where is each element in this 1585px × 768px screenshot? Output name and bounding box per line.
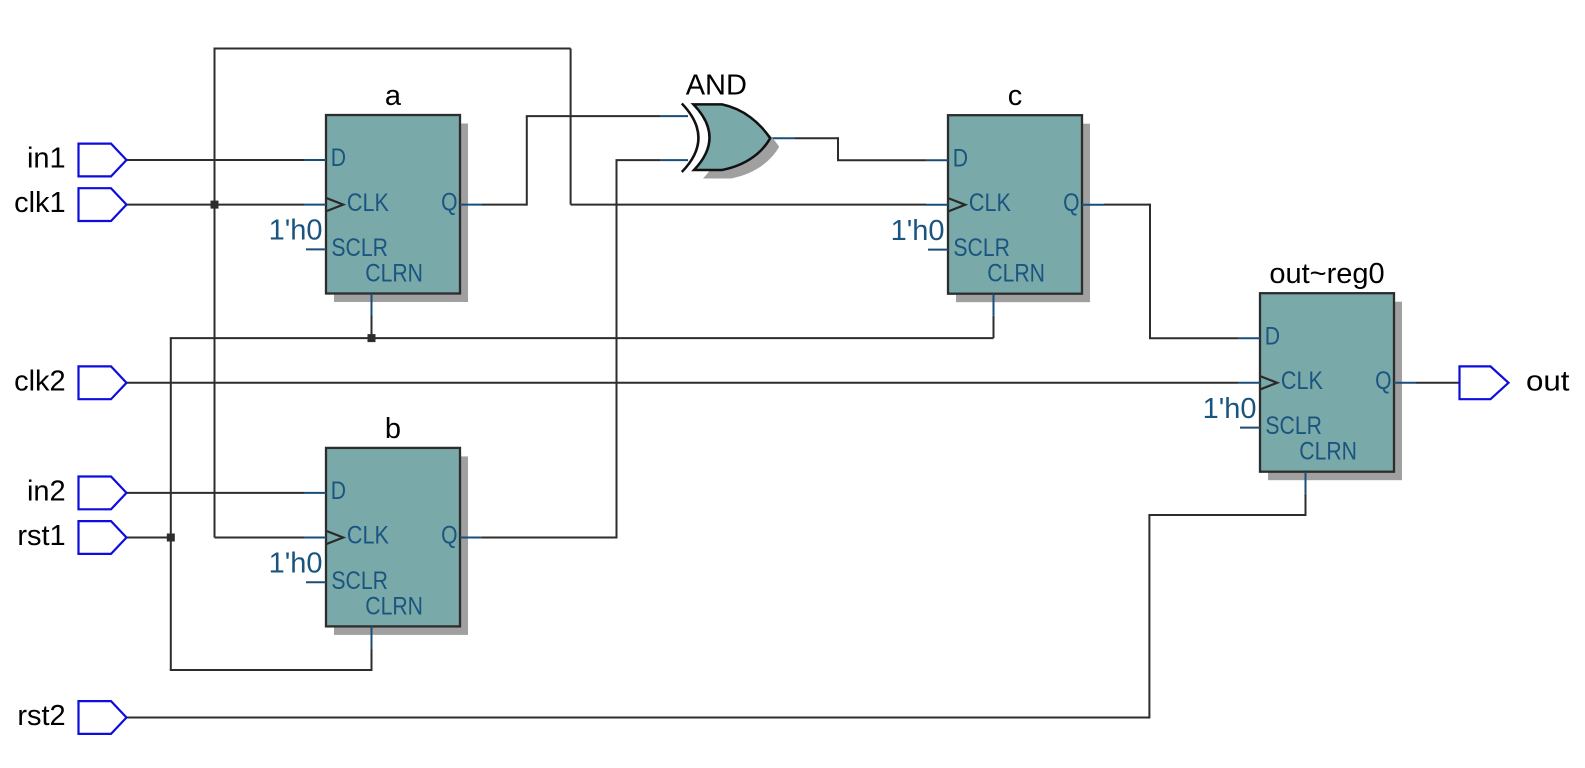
wire a.CLRN drop [371, 316, 373, 339]
svg-text:CLRN: CLRN [365, 260, 423, 288]
input port clk2 [14, 365, 126, 399]
wire clk1 to c.CLK [571, 204, 926, 206]
flip-flop b body [326, 448, 460, 627]
pin D of a [304, 144, 346, 172]
pin CLK of a [304, 189, 389, 217]
svg-text:a: a [385, 80, 402, 112]
input port clk1 [14, 187, 126, 221]
svg-text:SCLR: SCLR [953, 234, 1010, 262]
wire rst1 to junction [127, 537, 171, 539]
gate AND xor back arc [682, 104, 699, 173]
flip-flop out~reg0 body [1260, 293, 1394, 472]
AND gate output stub [770, 137, 795, 139]
flip-flop c title [1008, 80, 1023, 112]
flip-flop b shadow [334, 456, 468, 635]
pin CLRN of a [365, 260, 423, 316]
wire a.Q to AND top input [526, 115, 661, 117]
gate AND body [693, 104, 770, 170]
wire clrn horizontal a-c [170, 337, 994, 339]
svg-text:CLRN: CLRN [1299, 438, 1357, 466]
wire in1 to a.D [127, 159, 305, 161]
svg-text:SCLR: SCLR [1265, 412, 1322, 440]
wire c.CLRN drop [993, 316, 995, 338]
value label 1&#39;h0 at SCLR of out~reg0 [1203, 393, 1257, 425]
wire clk1 top horizontal [214, 48, 571, 50]
svg-text:CLK: CLK [1281, 367, 1323, 395]
wire a.Q east [482, 204, 527, 206]
input port rst2 [17, 700, 126, 734]
pin D of out~reg0 [1238, 322, 1280, 350]
svg-text:b: b [385, 413, 401, 445]
svg-text:rst1: rst1 [17, 520, 65, 552]
svg-text:CLK: CLK [347, 522, 389, 550]
flip-flop b title [385, 413, 401, 445]
flip-flop out~reg0 title [1269, 258, 1384, 290]
svg-text:Q: Q [1375, 367, 1391, 395]
wire b.Q riser [616, 160, 618, 538]
pin D of c [926, 144, 968, 172]
pin CLRN of b [365, 592, 423, 648]
svg-text:1'h0: 1'h0 [891, 215, 945, 247]
pin SCLR of out~reg0 [1240, 412, 1322, 440]
pin CLK of out~reg0 [1238, 367, 1323, 395]
input port in1 [27, 143, 127, 177]
flip-flop c shadow [956, 124, 1090, 303]
flip-flop c body [948, 115, 1082, 294]
svg-text:1'h0: 1'h0 [1203, 393, 1257, 425]
wire clk2 to out~reg0 CLK [127, 382, 1239, 384]
pin SCLR of a [306, 234, 388, 262]
svg-text:AND: AND [686, 70, 747, 102]
pin D of b [304, 477, 346, 505]
svg-text:CLK: CLK [347, 189, 389, 217]
output port out [1460, 365, 1570, 399]
wire clk1 to a.CLK [127, 204, 305, 206]
svg-text:1'h0: 1'h0 [269, 548, 323, 580]
wire b.Q east [482, 537, 617, 539]
node junction a.CLRN [368, 334, 376, 342]
svg-text:D: D [331, 477, 346, 505]
svg-text:CLRN: CLRN [365, 592, 423, 620]
wire rst1 vertical [170, 338, 172, 670]
gate AND label [686, 70, 747, 102]
pin CLRN of out~reg0 [1299, 438, 1357, 494]
svg-text:SCLR: SCLR [331, 234, 388, 262]
svg-text:1'h0: 1'h0 [269, 215, 323, 247]
pin Q of c [1063, 189, 1104, 217]
svg-text:c: c [1008, 80, 1023, 112]
AND gate input stub bottom [660, 159, 688, 161]
value label 1&#39;h0 at SCLR of c [891, 215, 945, 247]
pin Q of b [441, 522, 482, 550]
wire AND output drop [837, 137, 839, 160]
input port rst1 [17, 520, 126, 554]
node junction clk1 [211, 201, 219, 209]
pin Q of a [441, 189, 482, 217]
svg-text:out: out [1526, 365, 1570, 397]
wire b.CLRN rise [371, 648, 373, 670]
svg-text:in1: in1 [27, 143, 66, 175]
value label 1&#39;h0 at SCLR of a [269, 215, 323, 247]
wire c.Q drop [1149, 204, 1151, 339]
wire out~reg0 Q to out port [1416, 382, 1460, 384]
flip-flop a shadow [334, 124, 468, 303]
wire in2 to b.D [127, 492, 305, 494]
svg-text:CLRN: CLRN [987, 260, 1045, 288]
svg-text:Q: Q [1063, 189, 1079, 217]
pin CLRN of c [987, 260, 1045, 316]
svg-text:clk1: clk1 [14, 187, 66, 219]
wire c.Q east [1104, 204, 1150, 206]
pin SCLR of b [306, 567, 388, 595]
flip-flop out~reg0 shadow [1268, 302, 1402, 481]
flip-flop a title [385, 80, 402, 112]
flip-flop a body [326, 115, 460, 294]
svg-text:out~reg0: out~reg0 [1269, 258, 1384, 290]
svg-text:D: D [331, 144, 346, 172]
wire c.Q to out~reg0 D [1149, 337, 1238, 339]
wire AND output east [795, 137, 838, 139]
wire clk1 vertical riser [214, 49, 216, 538]
svg-text:SCLR: SCLR [331, 567, 388, 595]
svg-text:Q: Q [441, 522, 457, 550]
wire rst2 riser [1148, 515, 1150, 719]
svg-text:in2: in2 [27, 475, 66, 507]
svg-text:CLK: CLK [969, 189, 1011, 217]
wire rst2 shelf [1148, 514, 1306, 516]
gate AND shadow [702, 113, 779, 179]
svg-text:Q: Q [441, 189, 457, 217]
pin Q of out~reg0 [1375, 367, 1416, 395]
svg-text:rst2: rst2 [17, 700, 65, 732]
pin SCLR of c [928, 234, 1010, 262]
wire b.Q to AND bottom input [616, 159, 661, 161]
input port in2 [27, 475, 127, 509]
wire rst2 to out~reg0 CLRN [1305, 494, 1307, 515]
pin CLK of b [304, 522, 389, 550]
svg-text:D: D [953, 144, 968, 172]
wire rst1 to b.CLRN bottom [170, 669, 373, 671]
value label 1&#39;h0 at SCLR of b [269, 548, 323, 580]
svg-text:clk2: clk2 [14, 365, 66, 397]
wire AND output to c.D [837, 159, 926, 161]
AND gate input stub top [660, 115, 688, 117]
node junction rst1 [167, 534, 175, 542]
wire a.Q riser [526, 116, 528, 206]
wire clk1 to b.CLK [215, 537, 305, 539]
wire clk1 down to c.CLK level [570, 49, 572, 205]
wire rst2 horizontal [127, 717, 1150, 719]
pin CLK of c [926, 189, 1011, 217]
svg-text:D: D [1265, 322, 1280, 350]
